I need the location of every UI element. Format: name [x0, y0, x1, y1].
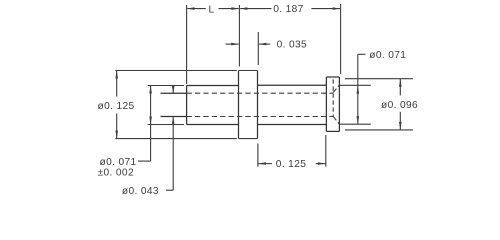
dimension line L [187, 8, 205, 10]
dimension line dia 0.071 left vertical + leader [150, 86, 152, 162]
mid body top edge [187, 85, 239, 87]
dimension dia 0.043 upper segment [172, 86, 174, 93]
arrowhead dia 0.071 right top (points up) [357, 86, 360, 94]
dimension line 0.125 bottom [258, 163, 272, 165]
extension line shared L right / 0.187 left [238, 5, 240, 67]
arrowhead 0.035 right (points left) [259, 43, 267, 46]
flange left edge [238, 71, 240, 139]
dimension dia 0.043 lower segment + leader [172, 117, 174, 191]
svg-text:0. 125: 0. 125 [276, 159, 306, 170]
extension line 0.187 right [340, 4, 342, 74]
hidden bore bottom (dashed) [187, 116, 334, 118]
hidden entry taper bottom diagonal [333, 116, 339, 124]
hidden bore top (dashed) [187, 92, 334, 94]
collar left edge [325, 77, 327, 131]
svg-text:0. 035: 0. 035 [277, 39, 307, 50]
arrowhead dia 0.043 top (points down) [172, 86, 175, 93]
tail pin bottom edge [161, 116, 187, 118]
mid body bottom edge [187, 124, 239, 126]
leader landing dia 0.071 left [138, 160, 151, 162]
arrowhead L left [187, 7, 195, 10]
0.035 right leader [259, 43, 270, 45]
svg-text:L: L [208, 4, 214, 15]
hidden entry taper top diagonal [333, 85, 339, 92]
dimension line dia 0.096 vertical [399, 79, 401, 96]
flange top edge [239, 70, 258, 72]
collar right edge [338, 77, 340, 131]
arrowhead 0.125 bottom right [318, 162, 326, 165]
flange right edge [257, 71, 259, 139]
arrowhead dia 0.071 right bottom (points down) [357, 116, 360, 124]
collar top edge [326, 76, 339, 78]
dimension line 0.187 [240, 8, 271, 10]
arrowhead dia 0.096 top [399, 79, 402, 87]
collar bottom edge [326, 130, 339, 132]
right body bottom edge [258, 124, 327, 126]
arrowhead dia 0.096 bottom [399, 122, 402, 130]
dimension line dia 0.071 right vertical [357, 54, 359, 123]
leader landing dia 0.043 [166, 189, 173, 191]
flange bottom edge [239, 138, 258, 140]
hidden counterbore bottom (dashed vertical) [332, 80, 334, 117]
arrowhead L right [231, 7, 239, 10]
svg-text:ø0. 071: ø0. 071 [369, 50, 406, 61]
svg-text:ø0. 096: ø0. 096 [381, 100, 418, 111]
arrowhead 0.187 right [333, 7, 341, 10]
leader landing dia 0.071 right [358, 53, 366, 55]
arrowhead 0.125 bottom left [258, 162, 266, 165]
extension line / flange top (dia 0.125) [115, 70, 237, 72]
extension line dia 0.071 right top [339, 84, 370, 86]
extension line dia 0.071 right bottom [339, 123, 370, 125]
svg-text:ø0. 125: ø0. 125 [98, 101, 135, 112]
arrowhead dia 0.043 bottom (points up) [172, 117, 175, 124]
extension line 0.035 right [257, 32, 259, 65]
arrowhead dia 0.125 top [115, 71, 118, 79]
extension line dia 0.096 top [345, 78, 413, 80]
dimension line dia 0.125 vertical [116, 71, 118, 97]
extension line dia 0.096 bottom [345, 129, 413, 131]
extension line 0.125 bottom left [257, 144, 259, 167]
arrowhead dia 0.071 left bottom [149, 117, 152, 125]
0.035 left arrow stub [226, 43, 239, 45]
svg-text:ø0. 043: ø0. 043 [122, 186, 159, 197]
arrowhead dia 0.071 left top [149, 86, 152, 94]
arrowhead 0.187 left [240, 7, 248, 10]
extension line L left [186, 5, 188, 84]
arrowhead dia 0.125 bottom [115, 131, 118, 139]
extension line 0.125 bottom right [325, 135, 327, 167]
step shoulder vertical [186, 86, 188, 125]
extension line dia 0.071 bottom left [148, 124, 184, 126]
arrowhead 0.035 left (points right) [231, 43, 239, 46]
right body top edge [258, 84, 327, 86]
tail pin top edge [161, 92, 187, 94]
svg-text:0. 187: 0. 187 [273, 4, 303, 15]
extension line dia 0.071 top left [148, 85, 184, 87]
svg-text:±0. 002: ±0. 002 [98, 168, 134, 179]
extension line / flange bottom (dia 0.125) [115, 138, 237, 140]
